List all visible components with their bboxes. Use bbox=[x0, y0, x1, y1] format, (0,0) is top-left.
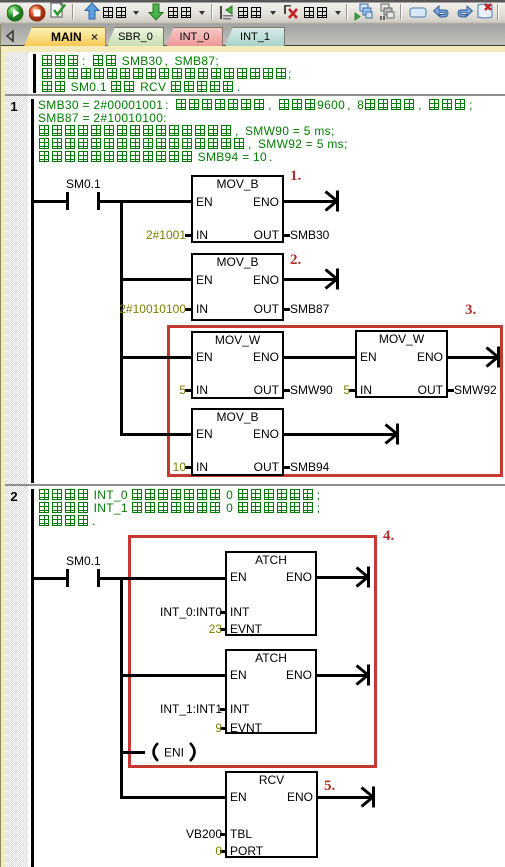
network 1 number bbox=[0, 99, 28, 114]
toolbar separator bbox=[346, 4, 348, 20]
yellow band under tabs bbox=[0, 46, 505, 52]
red note 3. bbox=[465, 302, 476, 318]
branch wire to MOV_B 3 bbox=[123, 433, 191, 436]
toolbar download label 下载 bbox=[167, 6, 193, 20]
open line arrow 5 bbox=[354, 563, 371, 591]
program comment line 3 bbox=[41, 80, 247, 94]
program comment line 2 bbox=[41, 67, 292, 81]
wire contact to MOV_B 1 EN bbox=[100, 200, 191, 203]
tick EVNT ATCH 1 bbox=[220, 628, 226, 631]
tick IN MOV_B 2 bbox=[185, 308, 191, 311]
toolbar delete-page icon (page with red x) bbox=[475, 0, 495, 24]
program comment left bar bbox=[33, 54, 36, 93]
toolbar download icon (green down arrow) bbox=[148, 0, 164, 24]
branch wire to RCV bbox=[123, 796, 225, 799]
open line arrow 3 bbox=[484, 343, 501, 371]
wire ATCH 1 ENO to arrow bbox=[317, 576, 367, 579]
open line arrow 6 bbox=[354, 661, 371, 689]
tick OUT MOV_B 2 bbox=[284, 308, 290, 311]
red note 4. bbox=[383, 528, 394, 544]
tick TBL RCV bbox=[220, 833, 226, 836]
toolbar insert caret bbox=[270, 11, 276, 18]
toolbar delete label 删除 bbox=[303, 6, 329, 20]
label SMW92 (MOV_W 2 OUT) bbox=[454, 383, 497, 397]
toolbar run button (green play) bbox=[7, 0, 24, 24]
toolbar delete-network icon bbox=[283, 0, 301, 24]
tab MAIN (active, yellow) bbox=[24, 27, 106, 46]
program comment line 1 bbox=[41, 54, 219, 68]
tick INT ATCH 2 bbox=[220, 708, 226, 711]
value 23 (ATCH 1 EVNT) bbox=[209, 622, 222, 636]
value 2#1001 (MOV_B 1 IN) bbox=[146, 228, 186, 242]
network 2 number bbox=[0, 489, 28, 504]
open line arrow 7 bbox=[359, 783, 376, 811]
contact SM0.1 label (network 1) bbox=[66, 177, 99, 191]
label SMW90 (MOV_W 1 OUT) bbox=[290, 383, 333, 397]
network 1 comment line 1 bbox=[38, 98, 479, 112]
value 9 (ATCH 2 EVNT) bbox=[215, 721, 222, 735]
toolbar separator bbox=[497, 4, 499, 20]
toolbar redo icon (right curl arrow) bbox=[454, 0, 474, 24]
tab INT_0 bbox=[166, 27, 223, 46]
tick OUT MOV_W 1 bbox=[284, 389, 290, 392]
junction column network 1 bbox=[120, 200, 123, 436]
contact SM0.1 label (network 2) bbox=[66, 554, 99, 568]
junction column network 2 bbox=[120, 577, 123, 799]
wire RCV ENO to arrow bbox=[318, 796, 372, 799]
value 5 (MOV_W 2 IN) bbox=[343, 383, 350, 397]
label SMB87 (MOV_B 2 OUT) bbox=[290, 302, 329, 316]
box MOV_B 3 bbox=[191, 408, 284, 476]
toolbar insert label 插入 bbox=[237, 6, 263, 20]
toolbar separator bbox=[72, 4, 74, 20]
tick IN MOV_B 3 bbox=[185, 466, 191, 469]
left olive edge bbox=[0, 24, 1, 867]
red annotation box 4 bbox=[128, 535, 377, 768]
toolbar upload label 上传 bbox=[102, 6, 128, 20]
toolbar upload caret bbox=[133, 11, 139, 18]
value INT_0:INT0 (ATCH 1) bbox=[160, 605, 222, 619]
network 1 comment line 4 bbox=[38, 137, 348, 151]
branch wire to ATCH 2 bbox=[123, 674, 225, 677]
red annotation box 3 bbox=[167, 325, 503, 477]
network 2 comment line 1 bbox=[38, 488, 327, 502]
tick PORT RCV bbox=[220, 850, 226, 853]
box RCV bbox=[225, 771, 318, 858]
network 1 comment line 5 bbox=[38, 150, 279, 164]
tick OUT MOV_W 2 bbox=[448, 389, 454, 392]
tab nav arrow bbox=[3, 29, 17, 43]
separator network 2 bbox=[5, 484, 505, 486]
toolbar separator bbox=[211, 4, 213, 20]
toolbar delete caret bbox=[335, 11, 341, 18]
tab SBR_0 bbox=[107, 27, 164, 46]
box MOV_B 2 bbox=[191, 253, 284, 321]
network 2 comment line 2 bbox=[38, 501, 327, 515]
branch wire to MOV_B 2 bbox=[123, 278, 191, 281]
toolbar undo icon (left curl arrow) bbox=[432, 0, 452, 24]
coil ENI bbox=[145, 741, 203, 763]
open line arrow 4 bbox=[383, 420, 400, 448]
toolbar compile button (sheet with green check) bbox=[50, 0, 68, 24]
wire MOV_B 2 ENO to arrow bbox=[284, 278, 336, 281]
box MOV_W 1 bbox=[191, 331, 284, 399]
value 0 (RCV PORT) bbox=[215, 844, 222, 858]
box ATCH 2 bbox=[225, 649, 317, 734]
separator network 1 bbox=[5, 94, 505, 96]
open line arrow 1 bbox=[323, 187, 340, 215]
open line arrow 2 bbox=[323, 265, 340, 293]
toolbar background bbox=[0, 0, 505, 24]
toolbar empty-box icon bbox=[408, 0, 428, 24]
toolbar insert-network icon bbox=[219, 0, 236, 24]
toolbar upload icon (blue up arrow) bbox=[84, 0, 100, 24]
network 1 comment line 3 bbox=[38, 124, 335, 138]
contact left bar bbox=[66, 192, 69, 210]
wire rail to contact bbox=[34, 200, 66, 203]
tick IN MOV_B 1 bbox=[185, 234, 191, 237]
toolbar stop button (red stop) bbox=[29, 0, 46, 24]
network 1 comment line 2 bbox=[38, 111, 167, 125]
wire ATCH 2 ENO to arrow bbox=[317, 674, 367, 677]
toolbar cascade-gray icon bbox=[377, 0, 397, 24]
wire MOV_W 2 ENO to arrow bbox=[448, 356, 497, 359]
toolbar separator bbox=[400, 4, 402, 20]
toolbar download caret bbox=[199, 11, 205, 18]
tab INT_1 bbox=[225, 27, 285, 46]
contact right bar bbox=[97, 192, 100, 210]
network 2 left power rail bbox=[31, 489, 34, 867]
label SMB30 (MOV_B 1 OUT) bbox=[290, 228, 329, 242]
box MOV_B 1 bbox=[191, 175, 284, 243]
left yellow strip bbox=[1, 46, 5, 867]
branch wire to ENI coil bbox=[123, 751, 145, 754]
value 10 (MOV_B 3 IN) bbox=[173, 460, 186, 474]
wire MOV_B 3 ENO to arrow bbox=[284, 433, 396, 436]
red note 5. bbox=[324, 778, 335, 794]
value VB200 (RCV TBL) bbox=[186, 827, 222, 841]
wire MOV_B 1 ENO to arrow bbox=[284, 200, 336, 203]
box ATCH 1 bbox=[225, 551, 317, 636]
tab bar bottom line bbox=[0, 45, 24, 46]
wire rail to contact (network 2) bbox=[34, 577, 66, 580]
tick IN MOV_W 2 bbox=[349, 389, 355, 392]
red note 2. bbox=[290, 252, 301, 268]
tab bar background bbox=[0, 24, 505, 46]
label SMB94 (MOV_B 3 OUT) bbox=[290, 460, 329, 474]
network 2 comment line 3 bbox=[38, 514, 102, 528]
tick OUT MOV_B 1 bbox=[284, 234, 290, 237]
tick EVNT ATCH 2 bbox=[220, 727, 226, 730]
gutter checker bbox=[5, 52, 28, 867]
contact left bar (network 2) bbox=[66, 569, 69, 587]
value 5 (MOV_W 1 IN) bbox=[179, 383, 186, 397]
toolbar cascade-blue icon bbox=[353, 0, 373, 24]
tick OUT MOV_B 3 bbox=[284, 466, 290, 469]
red note 1. bbox=[290, 168, 301, 184]
wire contact to ATCH 1 EN bbox=[100, 577, 225, 580]
branch wire to MOV_W 1 bbox=[123, 356, 191, 359]
contact right bar (network 2) bbox=[97, 569, 100, 587]
value 2#10010100 (MOV_B 2 IN) bbox=[119, 302, 186, 316]
svg-text:ENI: ENI bbox=[164, 746, 184, 760]
tick INT ATCH 1 bbox=[220, 611, 226, 614]
network 1 left power rail bbox=[31, 99, 34, 483]
value INT_1:INT1 (ATCH 2) bbox=[160, 702, 222, 716]
tick IN MOV_W 1 bbox=[185, 389, 191, 392]
wire MOV_W 1 ENO to MOV_W 2 EN bbox=[284, 356, 355, 359]
box MOV_W 2 bbox=[355, 330, 448, 398]
